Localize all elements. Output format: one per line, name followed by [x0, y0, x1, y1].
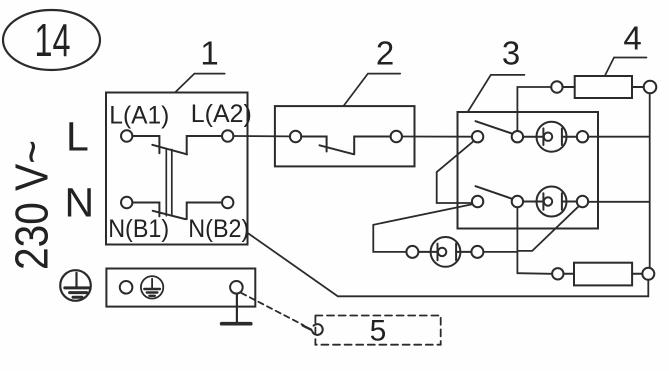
svg-text:2: 2	[376, 34, 394, 71]
terminal R1 right	[644, 81, 657, 94]
terminal box3 bottom-left	[472, 196, 483, 207]
terminal box3 top-right	[577, 131, 588, 142]
lamp H2 lead left	[523, 201, 543, 203]
terminal N(B1)	[121, 197, 132, 208]
lamp H3 lead right	[456, 251, 471, 253]
heater R1	[575, 76, 632, 98]
terminal R1 left	[551, 81, 562, 92]
svg-text:L: L	[66, 113, 89, 159]
terminal L(A2)	[222, 130, 233, 141]
terminal box2 left	[290, 131, 301, 142]
block small hole	[120, 281, 133, 294]
terminal L(A1)	[121, 130, 132, 141]
protective earth symbol	[60, 270, 91, 301]
lamp H3	[431, 237, 461, 267]
wire bottom-right to bus	[588, 201, 649, 203]
terminal box3 top-mid	[512, 131, 523, 142]
lamp H2	[537, 187, 567, 217]
heater R2	[574, 263, 632, 286]
svg-text:3: 3	[502, 34, 520, 71]
earth tail	[222, 294, 251, 324]
dashed link to sensor	[241, 293, 303, 325]
svg-text:230 V~: 230 V~	[6, 140, 58, 270]
terminal box2 right	[391, 131, 402, 142]
wire R1 right	[632, 86, 644, 88]
switch S1b output wire	[187, 203, 222, 220]
svg-text:N(B2): N(B2)	[188, 215, 249, 243]
wire R2 left	[564, 273, 575, 275]
terminal box3 bottom-mid	[512, 196, 523, 207]
terminal lamp H3 right	[471, 246, 483, 258]
switch S3b blade	[476, 186, 512, 198]
wire bottom-left to lamp row	[373, 204, 472, 252]
wire top-right to bus	[588, 136, 649, 138]
selector switch box 3	[458, 112, 599, 229]
sensor connector tail	[303, 326, 311, 330]
neutral return wire	[247, 233, 648, 297]
svg-text:N: N	[65, 180, 95, 226]
label 3 leader	[468, 75, 525, 112]
terminal box3 top-left	[472, 131, 483, 142]
switch S1b blade	[153, 211, 186, 219]
wire H3 to mid column	[483, 251, 517, 253]
switch S1a output wire	[187, 136, 222, 154]
svg-text:N(B1): N(B1)	[108, 215, 169, 243]
wire top-left down-loop	[437, 141, 474, 203]
sensor connector	[312, 324, 323, 335]
label 1 leader	[175, 74, 225, 93]
wire mid column to resistor R2	[517, 272, 551, 275]
mechanical link	[166, 150, 172, 216]
thermostat box 2	[275, 106, 415, 166]
lamp H2 lead right	[562, 201, 577, 203]
terminal lamp H3 left	[406, 246, 418, 258]
earth terminal block	[106, 269, 255, 307]
right bus wire	[649, 93, 651, 267]
label 2 leader	[344, 74, 401, 106]
lamp H3 lead left	[418, 251, 437, 253]
svg-text:4: 4	[623, 19, 641, 56]
svg-text:5: 5	[370, 314, 387, 347]
sensor box 5	[315, 316, 440, 345]
lamp H1	[537, 122, 567, 152]
switch S3a blade	[476, 121, 512, 133]
terminal box3 bottom-right	[577, 196, 588, 207]
terminal R2 left	[552, 268, 563, 279]
svg-text:L(A1): L(A1)	[109, 102, 169, 130]
diagram number oval 14	[3, 10, 100, 70]
block earth mark	[141, 276, 163, 298]
lamp H1 lead left	[523, 136, 543, 138]
svg-text:14: 14	[35, 14, 71, 66]
wire L(A2) to box2	[233, 135, 290, 137]
switch S2 blade	[320, 145, 354, 154]
switch unit box 1	[106, 93, 248, 245]
wire bottom-mid down	[516, 207, 518, 273]
switch S1a contact wire	[132, 136, 159, 153]
switch S1a blade	[152, 145, 187, 155]
wire R1 left	[563, 86, 575, 88]
switch S1b contact wire	[132, 203, 159, 217]
svg-text:L(A2): L(A2)	[191, 100, 252, 128]
wire R2 right	[632, 273, 642, 275]
wire box2 to box3	[402, 136, 472, 138]
block terminal	[230, 281, 243, 294]
wire bottom-right diagonal	[517, 206, 578, 251]
heater R1 leader 4	[605, 58, 647, 76]
terminal N(B2)	[222, 197, 233, 208]
switch S2 output wire	[354, 137, 390, 155]
terminal R2 right	[642, 268, 654, 280]
svg-text:1: 1	[200, 34, 218, 71]
lamp H1 lead right	[562, 136, 577, 138]
wire top-mid up to resistor feed	[517, 87, 551, 131]
switch S2 contact wire	[301, 137, 326, 152]
